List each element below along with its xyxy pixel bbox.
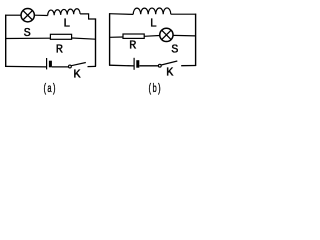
wire lamp to inductor (circuit a) (35, 14, 48, 16)
svg-text:(a): (a) (43, 82, 57, 96)
switch contact wire to bottom-right corner (circuit a) (88, 65, 97, 67)
wire lamp to right wire (circuit b) (173, 34, 195, 37)
circuit (a) left wire (5, 15, 7, 67)
inductor L coil (circuit a) (48, 9, 80, 16)
circuit (a) middle wire right segment (72, 38, 96, 39)
inductor L coil (circuit b) (133, 8, 171, 14)
battery (circuit b) (134, 58, 139, 70)
resistor R box (circuit b) (123, 34, 144, 38)
switch K (circuit b) (158, 61, 177, 67)
wire inductor to top-right jog (circuit a) (80, 14, 95, 19)
switch contact wire to bottom-right corner (circuit b) (181, 65, 196, 67)
svg-text:L: L (63, 17, 70, 31)
svg-text:K: K (166, 66, 174, 80)
circuit (b) top wire left segment (109, 13, 133, 16)
wire battery to switch (circuit b) (139, 65, 158, 67)
svg-text:(b): (b) (148, 82, 162, 96)
svg-text:R: R (56, 42, 63, 56)
circuit (a) bottom wire left segment (5, 65, 46, 68)
circuit (b) right wire (195, 14, 197, 66)
resistor R box (circuit a) (50, 34, 71, 39)
svg-text:L: L (150, 16, 157, 30)
wire inductor to top-right corner (circuit b) (171, 13, 196, 15)
svg-text:S: S (171, 43, 178, 57)
wire battery to switch (circuit a) (52, 66, 69, 68)
svg-text:R: R (129, 39, 136, 53)
circuit (b) middle wire left segment (110, 36, 123, 38)
battery (circuit a) (47, 58, 52, 69)
circuit (a) middle wire left segment (6, 37, 50, 39)
circuit (a) top wire left segment (5, 14, 21, 16)
switch K (circuit a) (69, 63, 86, 68)
lamp S (circuit a) (21, 9, 34, 22)
circuit (a) right wire (95, 18, 97, 66)
svg-text:K: K (73, 68, 81, 82)
circuit (b) bottom wire left segment (109, 64, 134, 67)
circuit (b) left wire (109, 13, 111, 65)
lamp S (circuit b) (160, 28, 173, 41)
wire resistor to lamp (circuit b) (144, 35, 159, 38)
